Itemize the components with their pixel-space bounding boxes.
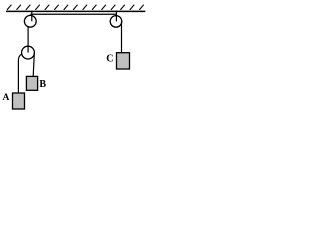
ceiling hatching [7, 5, 144, 10]
rope down to C [121, 21, 123, 53]
block C [117, 53, 130, 69]
lower movable pulley [22, 46, 35, 59]
block B [26, 76, 37, 90]
svg-text:B: B [39, 79, 46, 90]
horizontal rope between pulleys [30, 13, 116, 15]
right fixed pulley [110, 16, 122, 28]
left fixed pulley [24, 15, 36, 27]
rope down to A [18, 54, 21, 93]
right fixed pulley stem [115, 11, 117, 22]
left fixed pulley stem [31, 11, 33, 21]
block A [13, 93, 25, 109]
svg-text:C: C [106, 53, 113, 64]
rope down to B [33, 53, 34, 76]
rope from left pulley down to movable pulley [27, 27, 29, 53]
ceiling [6, 10, 145, 12]
svg-text:A: A [3, 93, 10, 103]
